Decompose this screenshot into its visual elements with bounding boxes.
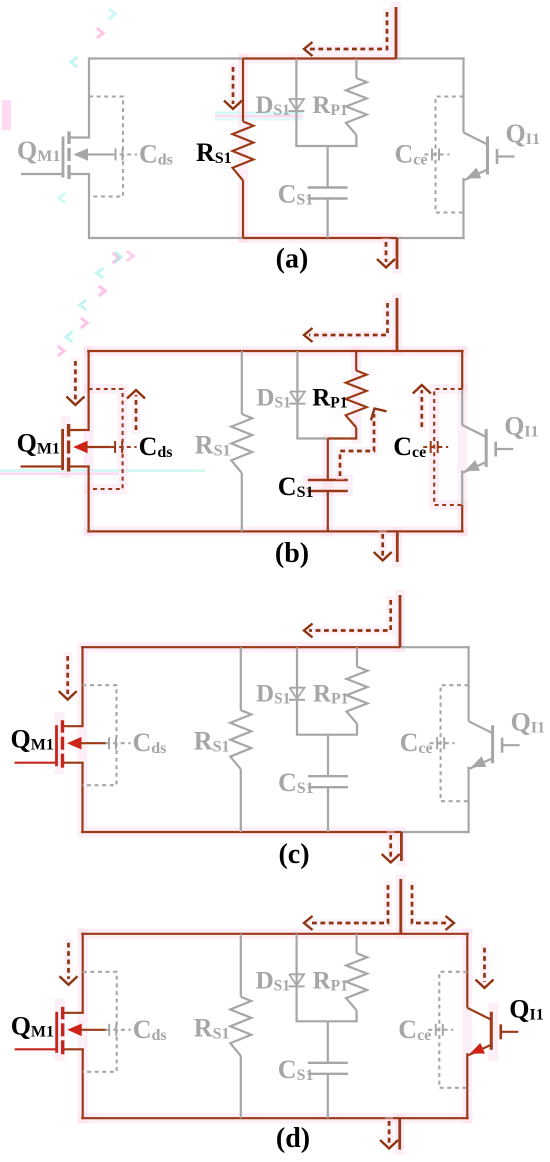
transistor QM1 gate bar (d) xyxy=(55,1012,58,1053)
wire RP1 branch lower (a) xyxy=(355,135,357,146)
transistor QI1 collector lead (c) xyxy=(469,721,493,733)
wire DC-link entry stub (b) xyxy=(396,298,399,351)
transistor QM1 source lead (d) xyxy=(63,1048,84,1050)
transistor QI1 bar (a) xyxy=(486,137,489,175)
transistor QI1 gate bar (b) xyxy=(494,442,497,457)
current arrow down left rail (b) xyxy=(66,361,84,405)
capacitor Cds dashed box (a) xyxy=(89,97,123,197)
current arrow up through Cce (b) xyxy=(413,385,431,427)
transistor QM1 drain lead (d) xyxy=(63,1012,84,1014)
capacitor Cce plates (a) xyxy=(432,149,439,161)
wire right rail lower (a) xyxy=(462,178,464,239)
wire DS1 branch (b) xyxy=(296,351,298,439)
transistor QI1 emitter arrow (a) xyxy=(466,168,481,179)
capacitor Cce dashed box (a) xyxy=(436,97,464,213)
current arrow entry current left (c) xyxy=(304,600,391,638)
wire RP1 branch lower (b) xyxy=(355,428,357,439)
jpeg chroma artifacts (decorative noise from source image) xyxy=(0,9,303,475)
resistor RS1 (c) xyxy=(230,710,251,769)
wire DC-link entry stub (c) xyxy=(399,595,402,647)
wire right rail upper (a) xyxy=(462,57,464,132)
current arrow entry current left (a) xyxy=(304,12,387,56)
wire RP1 branch lower (c) xyxy=(356,724,358,735)
svg-text:(d): (d) xyxy=(276,1123,310,1154)
wire RP1 branch upper (b) xyxy=(355,351,357,371)
current arrow exit current down (a) xyxy=(377,242,395,268)
capacitor Cce dashed lead (c) xyxy=(430,742,455,744)
current arrow entry current left (b) xyxy=(304,303,388,342)
wire RS1 branch upper (b) xyxy=(241,351,243,414)
wire RP1 branch upper (c) xyxy=(356,647,358,667)
transistor QI1 emitter lead (b) xyxy=(463,462,486,473)
current arrow down through RS1 (a) xyxy=(224,67,242,109)
resistor RS1 (d) xyxy=(230,997,251,1056)
diode DS1 symbol (b) xyxy=(289,392,305,404)
current arrow down left rail (c) xyxy=(59,656,77,700)
current arrow up through Cds (b) xyxy=(127,390,145,430)
wire RS1 branch upper (c) xyxy=(240,647,242,710)
capacitor Cce dashed lead (d) xyxy=(428,1029,453,1031)
current arrow entry current right (d) xyxy=(412,885,454,930)
transistor QI1 emitter lead (d) xyxy=(468,1045,491,1056)
transistor QM1 gate lead (a) xyxy=(21,173,63,175)
wire DS1-RP1 junction bar (a) xyxy=(295,145,357,147)
pink halo under red traces of circuit (b) xyxy=(66,298,463,562)
capacitor Cds dashed box (c) xyxy=(83,685,117,785)
wire RS1 branch lower (c) xyxy=(240,769,242,832)
wire bottom rail (a) xyxy=(88,237,465,239)
diode DS1 symbol (d) xyxy=(289,974,305,986)
transistor QM1 drain lead (b) xyxy=(69,429,90,431)
transistor QM1 body arrow (d) xyxy=(67,1024,82,1037)
capacitor Cce dashed lead (b) xyxy=(423,446,448,448)
transistor QM1 gate bar (a) xyxy=(62,137,65,178)
transistor QI1 emitter arrow (d) xyxy=(470,1043,485,1054)
wire RS1 branch upper (d) xyxy=(240,934,242,997)
transistor QI1 gate lead (a) xyxy=(497,155,515,157)
wire CS1 stem upper (a) xyxy=(327,146,329,188)
wire CS1 stem upper (b) xyxy=(327,439,329,481)
current arrow up through CS1-RP1 (b) xyxy=(340,409,387,477)
wire right rail upper (d) xyxy=(466,933,468,1008)
transistor QM1 body arrow (c) xyxy=(67,737,82,750)
wire CS1 stem upper (d) xyxy=(327,1021,329,1063)
wire CS1 stem lower (a) xyxy=(327,199,329,239)
capacitor CS1 plates (c) xyxy=(308,776,348,787)
transistor QM1 drain lead (c) xyxy=(63,725,84,727)
wire top rail (d) xyxy=(81,933,468,935)
transistor QM1 channel segments (d) xyxy=(61,1007,64,1055)
wire bottom rail (d) xyxy=(81,1117,468,1119)
wire right rail upper (b) xyxy=(461,350,463,425)
transistor QM1 gate bar (b) xyxy=(61,429,64,470)
transistor QM1 body arrow (a) xyxy=(74,148,89,161)
wire left rail upper (a) xyxy=(88,57,90,137)
transistor QI1 bar (b) xyxy=(485,429,488,467)
current arrow exit current down (b) xyxy=(374,534,392,561)
transistor QM1 gate lead (c) xyxy=(15,762,57,764)
transistor QI1 gate bar (c) xyxy=(501,738,504,753)
transistor QI1 emitter arrow (c) xyxy=(471,756,486,767)
wire QM1 body to Cds (b) xyxy=(86,446,112,448)
wire top rail (b) xyxy=(87,350,463,352)
transistor QM1 channel segments (b) xyxy=(67,424,70,472)
wire DS1 branch (c) xyxy=(296,647,298,735)
capacitor Cce dashed box (d) xyxy=(439,972,467,1088)
transistor QM1 source lead (a) xyxy=(69,173,90,175)
capacitor Cds dashed box (d) xyxy=(83,972,117,1072)
wire RP1 branch upper (a) xyxy=(355,59,357,79)
wire CS1 stem lower (d) xyxy=(327,1074,329,1118)
transistor QI1 bar (d) xyxy=(490,1012,493,1050)
wire RP1 branch upper (d) xyxy=(356,934,358,954)
transistor QI1 gate lead (c) xyxy=(502,744,519,746)
capacitor Cds dashed box (b) xyxy=(89,389,123,489)
capacitor Cds dashed lead (d) xyxy=(106,1029,131,1031)
resistor RP1 (a) xyxy=(346,78,367,135)
capacitor Cce plates (b) xyxy=(431,441,438,453)
transistor QI1 collector lead (d) xyxy=(467,1008,491,1020)
svg-text:(b): (b) xyxy=(275,538,309,569)
capacitor Cce dashed lead (a) xyxy=(425,153,450,155)
wire DS1-RP1 junction bar (c) xyxy=(296,734,358,736)
diode DS1 symbol (a) xyxy=(288,99,304,111)
transistor QI1 emitter lead (a) xyxy=(465,170,488,181)
capacitor Cds plates (b) xyxy=(115,441,122,453)
current arrow entry current left (d) xyxy=(304,885,388,930)
wire left rail lower (b) xyxy=(87,466,89,533)
wire left rail upper (b) xyxy=(87,350,89,430)
capacitor Cds dashed lead (b) xyxy=(112,446,137,448)
wire return exit stub (a) xyxy=(396,238,399,269)
wire DS1-RP1 junction bar (d) xyxy=(296,1020,358,1022)
wire left rail lower (d) xyxy=(82,1049,84,1120)
current arrow exit current down (d) xyxy=(380,1121,398,1149)
wire QM1 body to Cds (a) xyxy=(86,153,112,155)
capacitor Cce dashed box (b) xyxy=(434,389,462,505)
wire QM1 body to Cds (c) xyxy=(80,742,106,744)
transistor QM1 gate lead (d) xyxy=(15,1048,57,1050)
wire right rail upper (c) xyxy=(468,646,470,721)
svg-text:(c): (c) xyxy=(278,839,309,870)
transistor QI1 gate bar (a) xyxy=(496,149,499,164)
capacitor Cds plates (c) xyxy=(109,737,116,749)
transistor QI1 collector lead (a) xyxy=(464,133,488,145)
capacitor Cds plates (a) xyxy=(116,149,123,161)
capacitor Cds plates (d) xyxy=(109,1024,116,1036)
wire bottom rail (c) xyxy=(81,831,470,833)
wire DS1 branch (d) xyxy=(296,934,298,1022)
wire QM1 body to Cds (d) xyxy=(80,1029,106,1031)
transistor QM1 channel segments (a) xyxy=(67,132,70,180)
transistor QM1 drain lead (a) xyxy=(69,136,90,138)
transistor QI1 bar (c) xyxy=(491,725,494,763)
wire return exit stub (c) xyxy=(400,832,403,861)
wire CS1 stem lower (c) xyxy=(327,787,329,832)
capacitor Cce plates (d) xyxy=(436,1024,443,1036)
pink halo under red traces of circuit (d) xyxy=(60,879,494,1150)
transistor QM1 source lead (b) xyxy=(69,465,90,467)
wire return exit stub (d) xyxy=(398,1118,401,1149)
current arrow exit current down (c) xyxy=(382,835,400,863)
transistor QM1 channel segments (c) xyxy=(61,720,64,768)
diode DS1 symbol (c) xyxy=(289,688,305,700)
transistor QI1 emitter arrow (b) xyxy=(465,460,480,471)
transistor QM1 gate bar (c) xyxy=(55,725,58,766)
transistor QM1 body arrow (b) xyxy=(73,441,88,454)
transistor QI1 gate lead (b) xyxy=(496,448,514,450)
transistor QI1 emitter lead (c) xyxy=(470,758,493,769)
resistor RP1 (d) xyxy=(346,953,367,1010)
pink halo under red traces of circuit (a) xyxy=(243,7,397,269)
capacitor CS1 plates (a) xyxy=(308,188,348,199)
transistor QM1 gate lead (b) xyxy=(21,465,63,467)
wire RP1 branch lower (d) xyxy=(356,1010,358,1021)
pink halo under red traces of circuit (c) xyxy=(60,595,402,861)
wire left rail upper (d) xyxy=(82,933,84,1013)
wire CS1 stem lower (b) xyxy=(327,491,329,531)
wire RS1 branch upper (a) xyxy=(242,59,244,122)
wire top rail (c) xyxy=(81,646,470,648)
wire left rail lower (c) xyxy=(81,762,83,833)
wire left rail lower (a) xyxy=(88,174,90,240)
wire RS1 branch lower (d) xyxy=(240,1056,242,1118)
wire RS1 branch lower (b) xyxy=(241,473,243,531)
wire CS1 stem upper (c) xyxy=(327,735,329,777)
svg-text:(a): (a) xyxy=(276,244,309,275)
wire right rail lower (b) xyxy=(461,471,463,533)
wire right rail lower (d) xyxy=(466,1053,468,1119)
transistor QM1 source lead (c) xyxy=(63,762,84,764)
capacitor Cds dashed lead (a) xyxy=(112,153,137,155)
wire DS1-RP1 junction bar (b) xyxy=(296,437,357,439)
wire left rail upper (c) xyxy=(81,646,83,726)
wire bottom rail (b) xyxy=(87,530,463,532)
wire DC-link entry stub (a) xyxy=(395,7,398,59)
capacitor Cce plates (c) xyxy=(437,737,444,749)
resistor RP1 (b) xyxy=(346,371,367,428)
wire return exit stub (b) xyxy=(396,531,399,562)
resistor RS1 (b) xyxy=(231,414,252,473)
capacitor CS1 plates (b) xyxy=(308,480,348,491)
transistor QI1 gate bar (d) xyxy=(499,1024,502,1039)
capacitor CS1 plates (d) xyxy=(308,1063,348,1074)
resistor RP1 (c) xyxy=(347,667,368,724)
current arrow down left rail (d) xyxy=(60,943,78,985)
transistor QI1 gate lead (d) xyxy=(501,1031,519,1033)
current arrow down right to QI1 (d) xyxy=(476,948,494,988)
capacitor Cds dashed lead (c) xyxy=(106,742,131,744)
resistor RS1 (a) xyxy=(233,122,254,181)
capacitor Cce dashed box (c) xyxy=(441,685,469,801)
wire RS1 branch lower (a) xyxy=(242,181,244,239)
transistor QI1 collector lead (b) xyxy=(462,425,486,437)
wire right rail lower (c) xyxy=(468,767,470,833)
wire DC-link entry stub (d) xyxy=(399,879,402,934)
wire top rail (a) xyxy=(88,57,465,59)
wire DS1 branch (a) xyxy=(295,59,297,147)
